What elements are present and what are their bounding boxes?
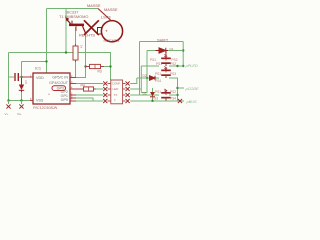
pin GP5/CIN: [71, 77, 76, 79]
svg-text:PS1: PS1: [155, 72, 161, 76]
svg-text:PS4: PS4: [155, 79, 161, 83]
lamp cross symbol: [84, 20, 99, 35]
svg-text:SHIFT: SHIFT: [157, 38, 169, 43]
pin GP4/COUT: [71, 83, 76, 85]
supply X pin V+ right: [19, 104, 23, 108]
svg-text:GP0: GP0: [61, 98, 68, 102]
svg-text:PS2: PS2: [170, 62, 176, 66]
wire jumper row1 right riser: [130, 78, 137, 84]
wire emitter net vertical: [65, 9, 67, 53]
wire group2 right with drop to rail: [169, 78, 178, 101]
wire GP2 to jumper row3: [76, 94, 103, 96]
node junction emitter-bus: [65, 51, 67, 53]
diode D4 shift: [156, 48, 169, 53]
resistor R3 horizontal: [86, 64, 105, 68]
node junction group3 right: [176, 94, 178, 96]
pin VSS: [30, 100, 33, 102]
svg-text:RECHTS: RECHTS: [79, 33, 95, 38]
wire collector vertical: [76, 33, 86, 78]
svg-text:LSP3: LSP3: [101, 15, 111, 20]
wire R4 to jumper row2: [96, 88, 103, 90]
wire inner corner top: [147, 50, 156, 52]
wire shift diode line right: [168, 50, 183, 52]
diode D5 vertical left: [19, 78, 24, 92]
svg-text:PS3: PS3: [152, 97, 158, 101]
wire VDD vertical: [21, 62, 23, 78]
svg-text:VDD: VDD: [36, 76, 44, 80]
svg-text:+: +: [105, 29, 108, 34]
svg-text:GP4/COUT: GP4/COUT: [49, 81, 69, 85]
diode D2 on group2 line: [150, 76, 156, 81]
svg-text:PIC12C508JN: PIC12C508JN: [33, 106, 58, 110]
motor circle: [101, 21, 122, 42]
pin GP3 highlighted: [71, 88, 76, 90]
node junction collector-R3: [84, 65, 86, 67]
svg-text:GP5/C IN: GP5/C IN: [52, 76, 68, 80]
opto group 2: [161, 66, 171, 78]
node junction R3-right: [109, 65, 111, 67]
svg-text:CONF: CONF: [112, 81, 121, 85]
svg-text:VSS: VSS: [36, 98, 44, 102]
wire jumper row4 bottom rail: [130, 100, 184, 102]
opto group 1: [161, 54, 171, 66]
wire vertical top rail to IC top: [46, 9, 48, 74]
wire cap right lead: [19, 76, 22, 78]
wire group2 line: [137, 77, 159, 79]
supply X pin V+ left: [6, 104, 10, 108]
pin GP0: [71, 100, 76, 102]
svg-text:V+: V+: [5, 112, 9, 116]
svg-text:PS3: PS3: [170, 72, 176, 76]
wire shift loop right vertical: [182, 42, 184, 67]
svg-text:µBUS: µBUS: [187, 100, 197, 104]
opto group 3: [161, 89, 171, 101]
svg-text:TX: TX: [114, 93, 118, 97]
node junction VDD tee: [45, 60, 47, 62]
svg-text:IC1: IC1: [35, 66, 41, 71]
node junction shift-g1: [182, 65, 184, 67]
X pins jumper left column: [103, 81, 107, 85]
wire GP1 stub: [76, 98, 93, 101]
svg-text:+: +: [48, 93, 50, 97]
wire stub to X pin left: [8, 101, 10, 105]
capacitor C1: [15, 73, 18, 81]
wire group3 right: [169, 94, 178, 96]
node junction shift diode right: [182, 49, 184, 51]
wire cap left lead: [9, 76, 15, 78]
wire bottom VSS rail: [9, 100, 34, 102]
X pins jumper right column: [126, 81, 130, 85]
node junction v+ left: [7, 99, 9, 101]
wire inner vertical x147: [141, 51, 147, 93]
pin GP2: [71, 94, 76, 96]
svg-text:VI+: VI+: [17, 112, 22, 116]
svg-text:µPLED: µPLED: [186, 64, 198, 68]
wire shift loop top: [140, 41, 184, 43]
node junction group2: [146, 77, 148, 79]
resistor R4 horizontal: [76, 87, 96, 91]
motor terminal box: [98, 28, 105, 35]
node junction cap diode vdd: [20, 76, 22, 78]
wire GP0 to jumper row4: [76, 100, 103, 102]
svg-text:T: T: [114, 99, 116, 103]
wire base resistor net: [75, 27, 77, 46]
wire group3 line: [140, 94, 160, 96]
wire stub to X pin right: [21, 101, 23, 105]
node junction uCODE stub: [176, 87, 178, 89]
wire shift loop left vertical: [139, 42, 141, 96]
wire main bus with corner down to R3 junction: [9, 53, 111, 81]
wire GP4 to jumper row1: [76, 83, 103, 85]
svg-text:µCODE: µCODE: [186, 87, 200, 91]
svg-text:D4: D4: [170, 47, 174, 51]
wire jumper row3 right to outer vertical: [130, 94, 139, 96]
svg-text:PS1: PS1: [156, 62, 162, 66]
svg-text:PS2: PS2: [170, 90, 176, 94]
svg-text:PS1: PS1: [155, 90, 161, 94]
wire diode to vss rail: [21, 92, 23, 101]
svg-text:R4: R4: [81, 83, 85, 87]
svg-text:MASSE: MASSE: [104, 7, 118, 12]
jumper block: [111, 80, 123, 104]
svg-text:T1 UMBSMOMO: T1 UMBSMOMO: [59, 14, 88, 19]
wire VDD horizontal: [22, 61, 47, 63]
svg-text:PS4: PS4: [170, 97, 176, 101]
node junction group1 right: [176, 65, 178, 67]
svg-text:1k: 1k: [80, 45, 84, 49]
svg-text:LED: LED: [113, 87, 120, 91]
transistor T1: [65, 17, 85, 33]
svg-text:MASSE: MASSE: [87, 3, 101, 8]
wire uCODE stub: [178, 87, 185, 89]
wire riser x141: [140, 66, 142, 93]
motor pin diagonal: [98, 9, 112, 22]
wire resistor bottom to GP5: [75, 60, 77, 78]
wire top rail: [47, 8, 99, 10]
node junction v+ right: [20, 99, 22, 101]
resistor R2 base vertical: [73, 44, 78, 62]
wire group1 line: [141, 65, 159, 67]
pin VDD: [22, 76, 34, 78]
jumper pin stubs: [108, 84, 126, 102]
pin GP1: [71, 97, 76, 99]
wire left vertical: [8, 53, 10, 101]
svg-text:RECHTS: RECHTS: [104, 38, 120, 43]
wire stem diode to opto1: [165, 51, 167, 56]
svg-text:D2: D2: [143, 74, 147, 78]
wire jumper row2 right riser to group1: [130, 88, 141, 90]
svg-text:R3: R3: [98, 70, 102, 74]
IC1 box: [33, 73, 70, 104]
wire group1 right: [169, 65, 183, 67]
wire R3 to bus corner: [104, 66, 111, 68]
svg-text:D1: D1: [143, 91, 147, 95]
X pin bottom rail right: [178, 99, 182, 103]
